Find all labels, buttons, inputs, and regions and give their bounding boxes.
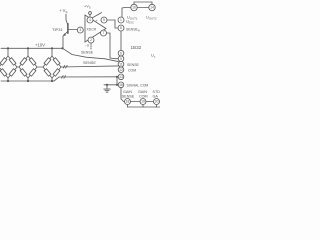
svg-text:18: 18 xyxy=(126,100,130,104)
svg-text:1: 1 xyxy=(120,18,122,22)
svg-text:4: 4 xyxy=(89,18,91,22)
svg-text:SENSE: SENSE xyxy=(122,94,135,98)
svg-text:STD: STD xyxy=(153,90,161,94)
svg-text:SENSE: SENSE xyxy=(127,63,140,67)
svg-text:9: 9 xyxy=(120,57,122,61)
svg-text:UOUT2: UOUT2 xyxy=(146,16,157,21)
svg-text:GA: GA xyxy=(153,94,159,98)
svg-text:13: 13 xyxy=(119,75,123,79)
svg-text:16: 16 xyxy=(119,83,123,87)
svg-text:12: 12 xyxy=(119,68,123,72)
svg-text:SENSE: SENSE xyxy=(81,51,94,55)
svg-text:3: 3 xyxy=(79,28,81,32)
svg-text:6: 6 xyxy=(120,51,122,55)
svg-text:UOUT1: UOUT1 xyxy=(127,16,138,21)
svg-text:TIP31: TIP31 xyxy=(52,27,63,32)
svg-text:SENSEH: SENSEH xyxy=(126,27,140,32)
svg-text:COM: COM xyxy=(139,94,148,98)
svg-text:1B32: 1B32 xyxy=(131,45,142,50)
svg-text:XDCR: XDCR xyxy=(87,28,97,32)
svg-text:GAIN: GAIN xyxy=(138,90,147,94)
svg-text:COM: COM xyxy=(128,69,136,73)
svg-text:2: 2 xyxy=(90,38,92,42)
svg-text:5: 5 xyxy=(103,18,105,22)
svg-text:+10V: +10V xyxy=(35,42,45,47)
svg-text:8: 8 xyxy=(120,26,122,30)
svg-text:7: 7 xyxy=(103,31,105,35)
svg-text:+VS: +VS xyxy=(60,8,68,14)
svg-text:11: 11 xyxy=(119,62,123,66)
svg-text:10: 10 xyxy=(132,6,136,10)
svg-text:SENSE: SENSE xyxy=(83,61,96,65)
svg-text:GAIN: GAIN xyxy=(123,90,132,94)
svg-text:+: + xyxy=(95,18,98,23)
svg-text:19: 19 xyxy=(141,100,145,104)
svg-text:14: 14 xyxy=(150,6,154,10)
svg-text:+VS: +VS xyxy=(84,5,91,10)
svg-text:20: 20 xyxy=(155,100,159,104)
svg-text:Uo: Uo xyxy=(151,54,156,59)
svg-text:SIGNAL COM: SIGNAL COM xyxy=(127,83,149,87)
svg-text:−U: −U xyxy=(85,44,90,48)
